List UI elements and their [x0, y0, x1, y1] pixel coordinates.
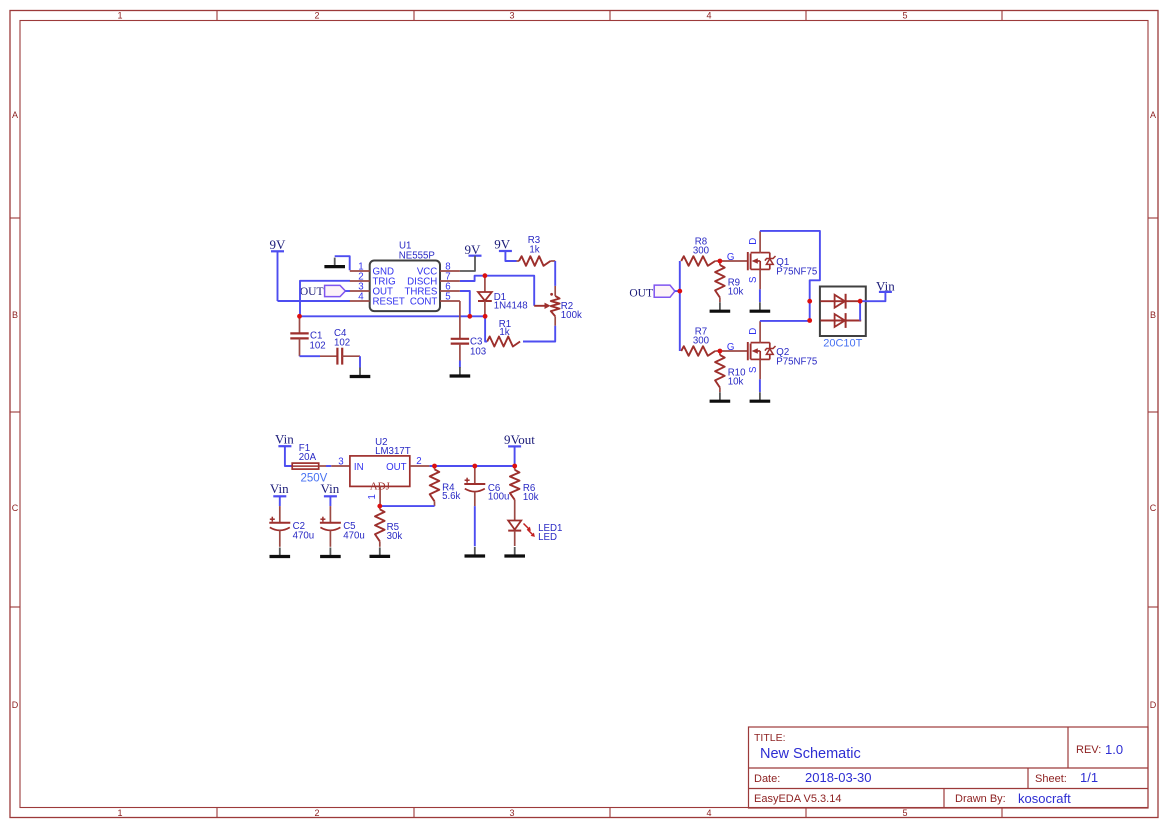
resistor R5 — [375, 506, 385, 547]
wire bus TRIG/THRES/CONT row — [300, 315, 486, 317]
svg-text:B: B — [1150, 310, 1156, 320]
svg-text:B: B — [12, 310, 18, 320]
wire Vin to C5 — [329, 496, 331, 506]
svg-text:Sheet:: Sheet: — [1035, 773, 1067, 785]
svg-text:9V: 9V — [494, 236, 511, 251]
resistor R9 — [715, 261, 725, 302]
ground (R10) — [710, 392, 731, 401]
svg-text:1: 1 — [117, 11, 122, 21]
power flag Vin (C5) — [321, 481, 340, 496]
svg-text:CONT: CONT — [410, 297, 438, 308]
svg-text:2: 2 — [314, 808, 319, 818]
junction dots LM317 section — [377, 464, 517, 509]
ground (C3) — [450, 367, 471, 376]
svg-text:10k: 10k — [728, 376, 744, 387]
U1 pin stubs — [350, 271, 460, 301]
capacitor C4 — [320, 348, 360, 365]
wire TRIG pin2 down to bus — [300, 281, 350, 317]
power flag Vin (C2) — [270, 481, 289, 496]
svg-text:4: 4 — [358, 291, 364, 302]
wire Q2 drain to bridge — [760, 320, 810, 322]
potentiometer R2 — [534, 286, 559, 326]
U1 pin names — [373, 267, 438, 308]
wire Vin to C2 — [279, 496, 281, 506]
svg-text:C: C — [1150, 503, 1157, 513]
power flag 9V (left) — [270, 237, 287, 252]
power flag Vin (bridge) — [876, 278, 895, 293]
wire R4 to ADJ — [380, 505, 435, 507]
svg-text:RESET: RESET — [373, 297, 405, 308]
junction dots mosfet section — [677, 259, 862, 354]
svg-text:300: 300 — [693, 245, 710, 256]
capacitor C2 (polarized) — [269, 506, 290, 547]
svg-text:10k: 10k — [523, 492, 539, 503]
svg-text:3: 3 — [509, 808, 514, 818]
svg-text:P75NF75: P75NF75 — [776, 357, 817, 368]
svg-text:D: D — [748, 328, 759, 335]
wire DISCH pin7 to D1/R2 wiper — [460, 276, 534, 306]
resistor R3 — [517, 256, 556, 266]
svg-text:REV:: REV: — [1076, 744, 1101, 756]
wire C1 to C4 — [300, 355, 321, 357]
svg-text:470u: 470u — [293, 531, 315, 542]
resistor R1 — [487, 337, 520, 347]
svg-text:2: 2 — [416, 456, 421, 467]
wire 9V stem to RESET net — [277, 251, 279, 301]
resistor R4 — [430, 466, 440, 506]
svg-text:TITLE:: TITLE: — [754, 732, 786, 744]
wire source to ground — [759, 289, 761, 302]
net port OUT (555 pin3) — [300, 285, 346, 298]
ground (C6) — [465, 547, 486, 556]
svg-text:20A: 20A — [299, 452, 317, 463]
svg-text:EasyEDA V5.3.14: EasyEDA V5.3.14 — [754, 793, 841, 805]
U1 pin numbers — [358, 261, 450, 302]
svg-text:A: A — [1150, 110, 1156, 120]
power flag Vin (F1) — [275, 432, 294, 447]
capacitor C6 (polarized) — [464, 466, 485, 506]
transistor Q2 P75NF75 — [748, 342, 776, 360]
wire OUT bus vertical — [675, 290, 680, 292]
svg-text:5: 5 — [902, 11, 907, 21]
svg-text:NE555P: NE555P — [399, 250, 435, 261]
resistor R7 — [681, 346, 720, 356]
svg-text:470u: 470u — [343, 531, 365, 542]
svg-text:1k: 1k — [499, 327, 509, 338]
bridge diode top — [820, 294, 861, 309]
wire 9V to R3 — [505, 251, 516, 261]
svg-text:OUT: OUT — [629, 287, 653, 299]
source pin — [759, 269, 761, 289]
ground (C5) — [320, 548, 341, 557]
svg-text:S: S — [748, 366, 759, 373]
svg-text:10k: 10k — [728, 286, 744, 297]
wire 9Vout stem — [514, 446, 516, 466]
svg-text:Date:: Date: — [754, 773, 780, 785]
wire OUT flag to pin 3 — [345, 290, 350, 292]
svg-text:4: 4 — [706, 11, 711, 21]
wire Vin to bridge — [860, 292, 885, 301]
resistor R6 — [510, 466, 520, 521]
bridge diode bottom — [820, 313, 861, 328]
svg-text:2: 2 — [314, 11, 319, 21]
U2 IN pin stub — [331, 465, 350, 467]
wire OUT bus — [430, 465, 515, 467]
svg-text:S: S — [748, 276, 759, 283]
wire ground to GND pin 1 — [335, 256, 350, 270]
diode D1 1N4148 — [478, 276, 492, 317]
wire bridge right vertical — [859, 301, 861, 320]
svg-text:1: 1 — [117, 808, 122, 818]
ground (C4) — [350, 368, 371, 377]
svg-text:5: 5 — [445, 291, 450, 302]
svg-text:100k: 100k — [561, 310, 582, 321]
net port OUT (driver) — [629, 285, 675, 299]
diode bridge 20C10T box — [820, 287, 866, 337]
svg-text:G: G — [727, 252, 735, 263]
svg-text:2018-03-30: 2018-03-30 — [805, 770, 872, 785]
svg-text:30k: 30k — [387, 531, 403, 542]
svg-text:3: 3 — [338, 457, 343, 468]
svg-text:102: 102 — [310, 341, 326, 352]
svg-text:LED: LED — [538, 532, 557, 543]
svg-text:D: D — [748, 238, 759, 245]
svg-text:D: D — [12, 700, 19, 710]
wire source to ground — [759, 379, 761, 392]
ground (R9) — [710, 302, 731, 311]
gate wire — [720, 260, 748, 262]
svg-text:Drawn By:: Drawn By: — [955, 793, 1006, 805]
drain pin — [759, 321, 761, 342]
svg-text:OUT: OUT — [300, 286, 324, 298]
power flag 9Vout — [504, 432, 535, 447]
fuse F1 — [292, 463, 326, 469]
svg-text:D: D — [1150, 700, 1157, 710]
svg-text:1.0: 1.0 — [1105, 742, 1123, 757]
svg-text:9Vout: 9Vout — [504, 432, 535, 447]
U2 OUT pin stub — [410, 465, 430, 467]
wire R2 bottom to R1 — [523, 326, 555, 342]
svg-text:300: 300 — [693, 335, 710, 346]
power flag 9V (R3) — [494, 236, 512, 251]
regulator U2 LM317T body — [350, 456, 410, 487]
svg-text:1N4148: 1N4148 — [494, 301, 528, 312]
LED1 diode — [508, 521, 535, 547]
wire Q1 drain to bridge — [760, 231, 820, 301]
svg-text:Vin: Vin — [270, 481, 289, 496]
wire Vin to fuse — [285, 446, 292, 466]
wire R1 left to bus — [485, 316, 487, 341]
gate wire — [720, 350, 748, 352]
svg-text:5.6k: 5.6k — [442, 491, 460, 502]
svg-text:20C10T: 20C10T — [823, 337, 862, 349]
svg-text:kosocraft: kosocraft — [1018, 791, 1071, 806]
wire CONT pin5 to C3 — [459, 301, 461, 339]
ground (Q1 source) — [750, 302, 771, 311]
resistor R10 — [715, 351, 725, 392]
junction dots 555 — [297, 273, 487, 318]
wire VCC pin8 to 9V (gray) — [460, 256, 475, 271]
svg-text:1/1: 1/1 — [1080, 770, 1098, 785]
svg-text:Vin: Vin — [321, 481, 340, 496]
svg-text:OUT: OUT — [386, 462, 407, 473]
svg-text:IN: IN — [354, 462, 364, 473]
svg-text:103: 103 — [470, 347, 486, 358]
capacitor C1 — [290, 316, 308, 356]
op-amp U1 NE555P body — [370, 261, 440, 312]
wire bridge left vertical — [809, 301, 811, 320]
title block — [749, 727, 1149, 808]
svg-text:Vin: Vin — [275, 432, 294, 447]
title block texts — [754, 732, 1123, 806]
svg-text:1k: 1k — [529, 245, 539, 256]
power flag 9V (VCC) — [464, 242, 481, 257]
ground (555 pin1 GND) — [324, 258, 345, 267]
capacitor C5 (polarized) — [320, 506, 341, 547]
ground (C2) — [270, 548, 291, 557]
wire fuse to IN — [326, 465, 331, 467]
ADJ pin stub — [379, 486, 381, 506]
ground (LED1) — [504, 547, 525, 556]
svg-text:LM317T: LM317T — [375, 446, 411, 457]
wire THRES pin6 down to bus — [460, 291, 470, 316]
transistor Q1 P75NF75 — [748, 252, 776, 270]
drain pin — [759, 231, 761, 252]
svg-text:G: G — [727, 342, 735, 353]
wire R3 to R2 top — [554, 261, 556, 286]
source pin — [759, 359, 761, 379]
svg-text:9V: 9V — [270, 237, 287, 252]
svg-text:C: C — [12, 503, 19, 513]
svg-text:100u: 100u — [488, 492, 510, 503]
svg-text:5: 5 — [902, 808, 907, 818]
wire C4 to ground — [359, 356, 361, 367]
ground (R5) — [370, 547, 391, 556]
wire 9V to RESET pin 4 — [278, 300, 351, 302]
svg-text:New Schematic: New Schematic — [760, 746, 861, 762]
wire C6 to ground — [474, 506, 476, 546]
svg-text:102: 102 — [334, 338, 350, 349]
wire C3 to ground — [459, 361, 461, 368]
svg-text:3: 3 — [509, 11, 514, 21]
resistor R8 — [681, 256, 720, 266]
svg-text:P75NF75: P75NF75 — [776, 267, 817, 278]
ground (Q2 source) — [750, 392, 771, 401]
svg-text:A: A — [12, 110, 18, 120]
svg-text:1: 1 — [367, 494, 378, 499]
capacitor C3 — [451, 339, 469, 361]
svg-text:4: 4 — [706, 808, 711, 818]
